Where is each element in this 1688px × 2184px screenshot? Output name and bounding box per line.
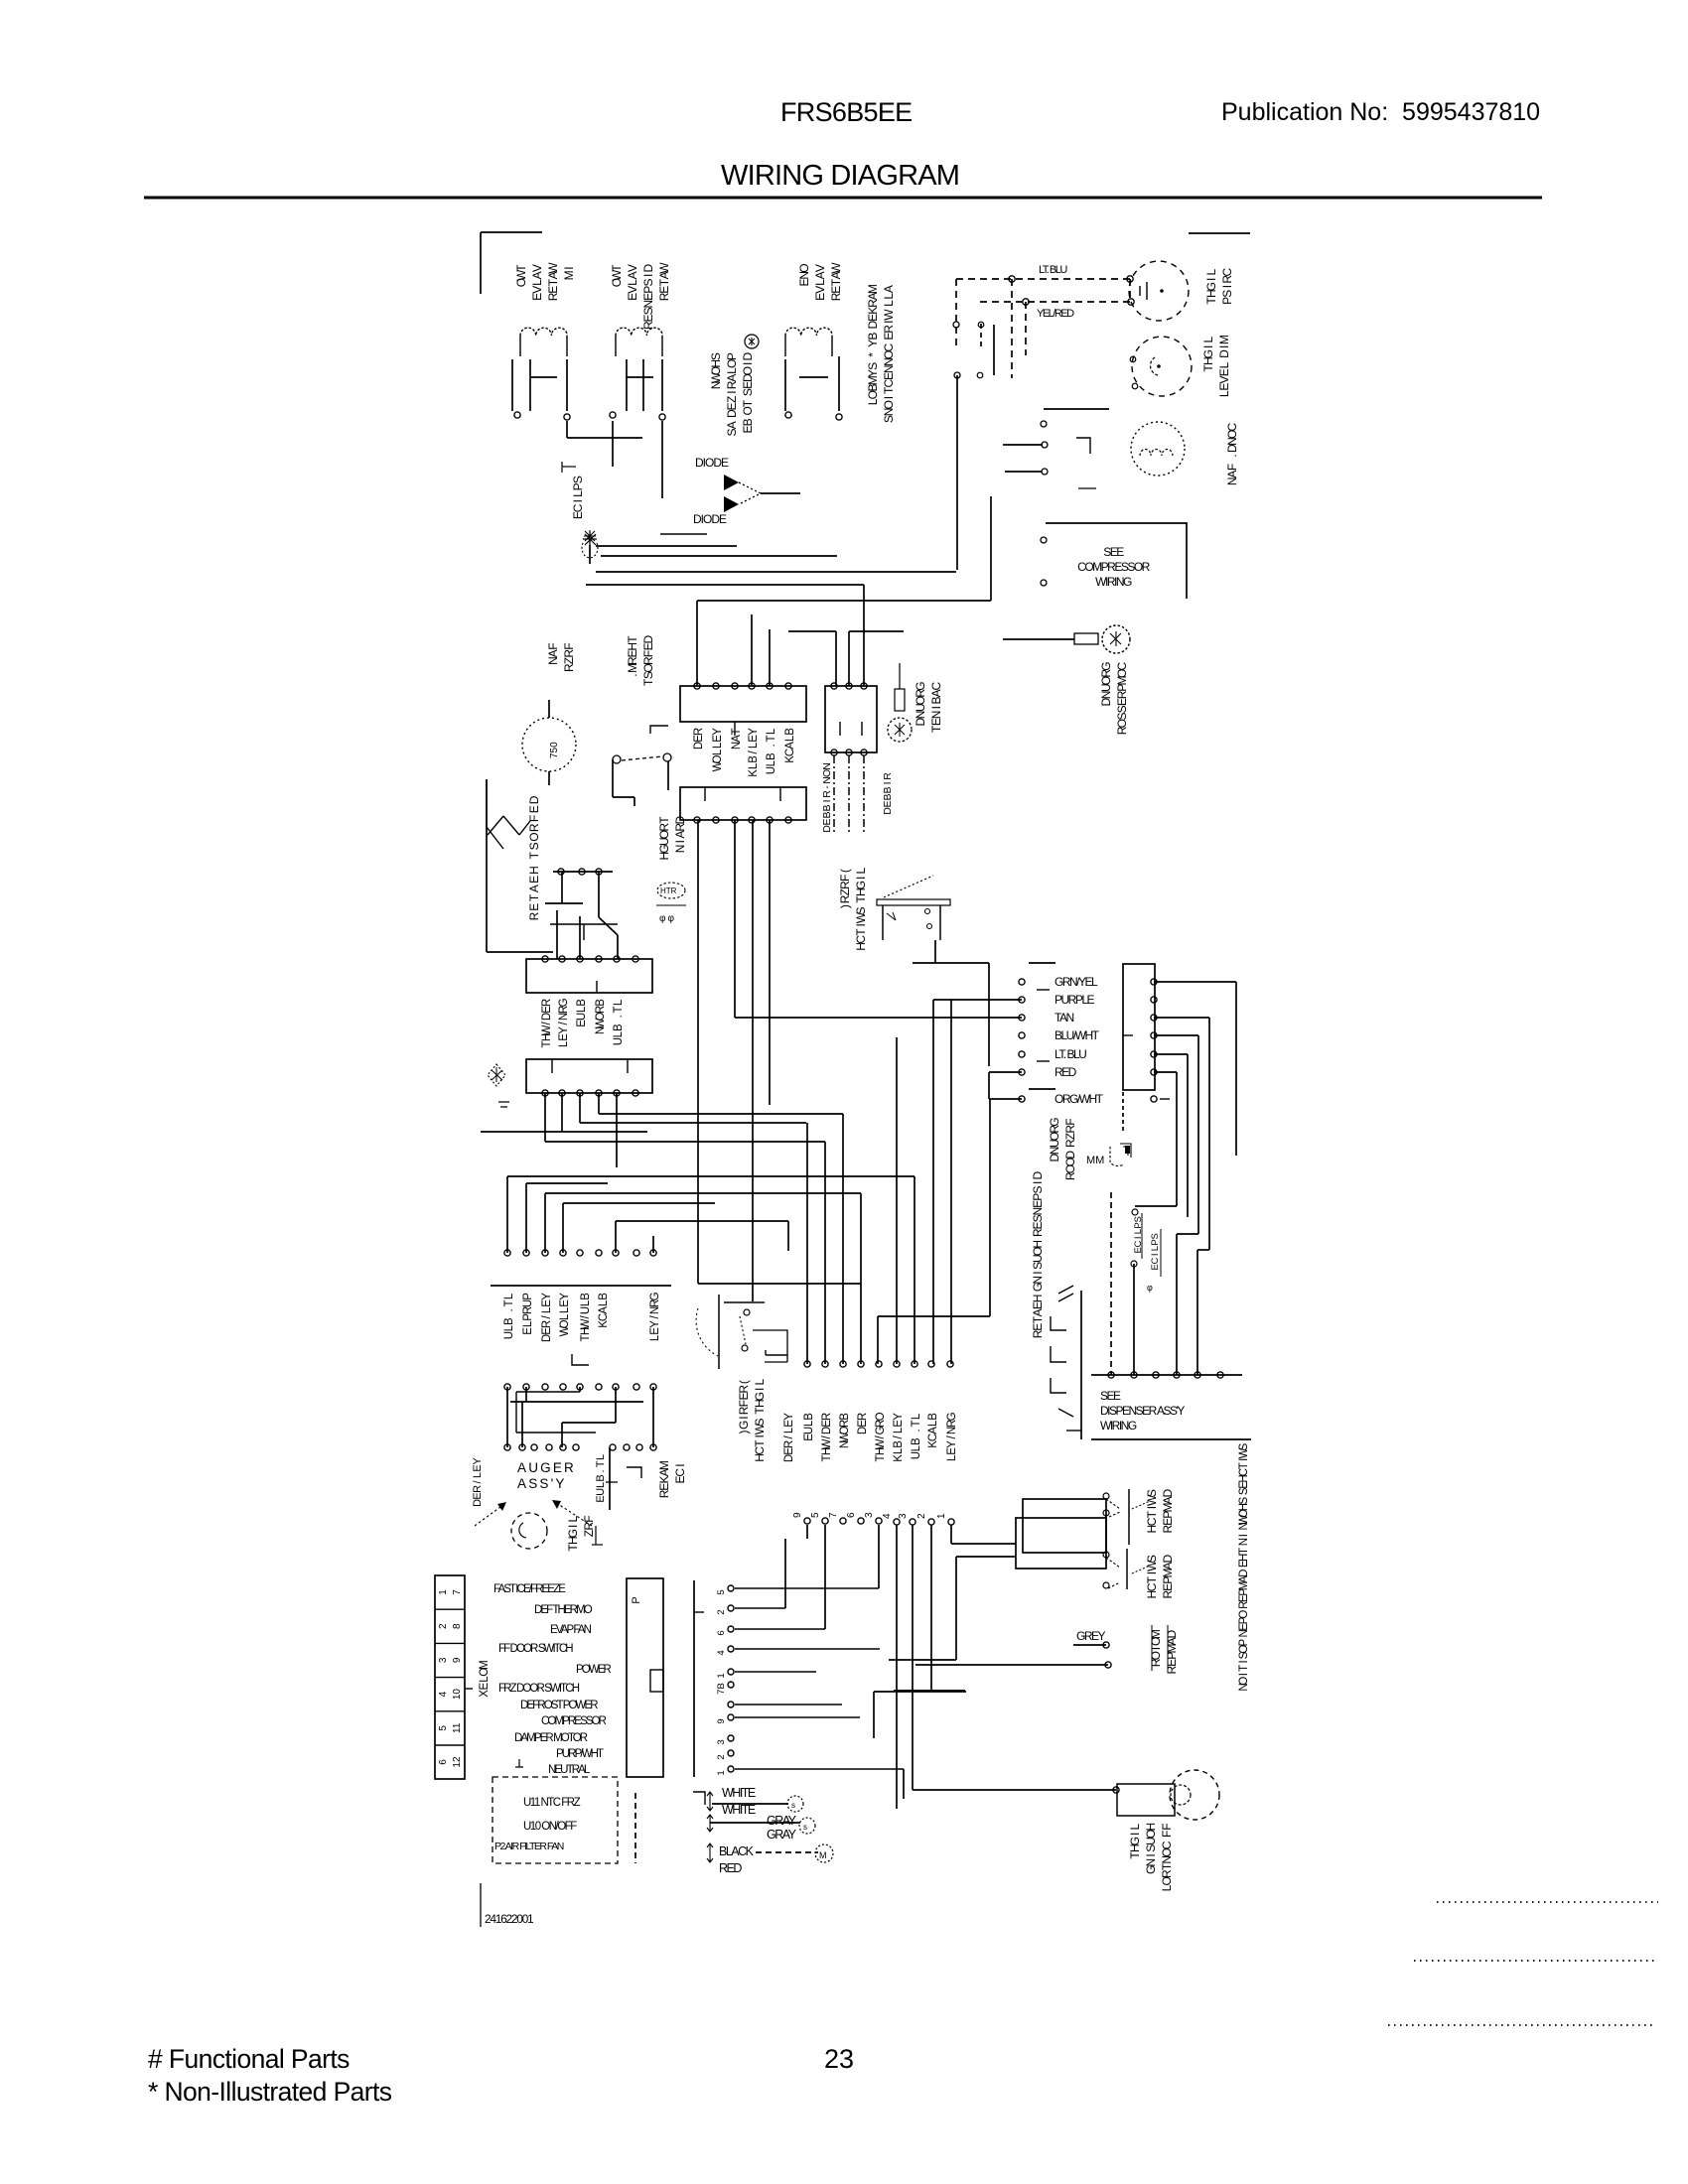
svg-text:E: E: [946, 1447, 958, 1455]
svg-text:R: R: [562, 663, 576, 672]
svg-text:S: S: [882, 415, 896, 423]
dashed wire: [1110, 1192, 1112, 1375]
svg-text:6: 6: [716, 1630, 727, 1635]
coil lead: [615, 336, 617, 356]
svg-text:B: B: [911, 1437, 922, 1445]
wire: [712, 1803, 788, 1805]
pin: [614, 1090, 620, 1096]
svg-text:F: F: [1225, 464, 1239, 471]
wire stub: [806, 1525, 808, 1539]
pin: [573, 1444, 579, 1450]
svg-text:R: R: [522, 1306, 534, 1314]
svg-text:E: E: [797, 279, 811, 287]
svg-text:R: R: [821, 790, 833, 798]
svg-text:I: I: [1238, 1458, 1250, 1461]
dashed wire YEL/RED: [980, 301, 1132, 303]
wire: [912, 1525, 914, 1790]
svg-text:D: D: [541, 1013, 553, 1021]
wire: [988, 963, 990, 1066]
svg-text:R: R: [527, 823, 541, 832]
svg-text:T: T: [1145, 1575, 1159, 1583]
svg-text:H: H: [1031, 1295, 1045, 1303]
svg-text:E: E: [1031, 1222, 1045, 1230]
tick: [694, 1611, 704, 1613]
svg-text:7: 7: [452, 1589, 463, 1595]
wire: [612, 759, 614, 797]
svg-text:W: W: [1145, 1560, 1159, 1571]
svg-text:Y: Y: [541, 1293, 553, 1300]
svg-text:S: S: [1150, 1233, 1161, 1239]
wire: [1154, 1053, 1188, 1055]
svg-text:6: 6: [846, 1512, 857, 1518]
svg-text:K: K: [893, 1454, 905, 1462]
pin: [1151, 979, 1157, 985]
svg-text:A: A: [866, 292, 880, 300]
wire: [993, 325, 995, 375]
pin: [633, 1384, 639, 1390]
svg-text:D: D: [693, 742, 705, 750]
svg-text:T: T: [503, 1299, 515, 1306]
svg-text:L: L: [595, 1482, 607, 1488]
svg-text:SEE: SEE: [1100, 1389, 1121, 1403]
wire: [580, 1122, 806, 1124]
svg-text:R: R: [866, 299, 880, 308]
wire: [487, 951, 553, 953]
svg-text:N: N: [709, 381, 723, 390]
svg-text:T: T: [882, 386, 896, 394]
terminal: [953, 322, 959, 328]
svg-text:I: I: [1238, 1673, 1250, 1676]
svg-text:E: E: [472, 1492, 484, 1499]
svg-text:U: U: [595, 1488, 607, 1496]
pin: [1019, 1096, 1025, 1102]
splice tick: [562, 466, 576, 468]
svg-text:S: S: [1238, 1487, 1250, 1495]
wire: [1154, 981, 1236, 983]
svg-text:E: E: [657, 1483, 671, 1491]
svg-text:I: I: [753, 1434, 767, 1437]
svg-text:T: T: [875, 1454, 887, 1461]
contact bar: [1128, 1489, 1130, 1545]
wire: [1176, 1234, 1178, 1375]
svg-text:BLU/WHT: BLU/WHT: [1055, 1028, 1100, 1042]
pin: [560, 1250, 566, 1256]
tick: [1029, 1088, 1055, 1090]
svg-text:E: E: [1238, 1560, 1250, 1568]
svg-text:E: E: [472, 1464, 484, 1471]
svg-text:U10 ON/OFF: U10 ON/OFF: [523, 1821, 577, 1833]
svg-text:R: R: [882, 772, 894, 780]
svg-text:E: E: [929, 718, 943, 726]
wire: [930, 1525, 932, 1691]
svg-text:B: B: [784, 728, 796, 736]
pin: [624, 1444, 630, 1450]
svg-text:L: L: [503, 1324, 515, 1331]
svg-text:I: I: [1031, 1181, 1045, 1184]
svg-text:P: P: [631, 1596, 642, 1603]
svg-text:12: 12: [452, 1756, 463, 1768]
dashed wire: [756, 1851, 818, 1853]
svg-text:H: H: [566, 1536, 580, 1545]
svg-text:N: N: [1031, 1207, 1045, 1216]
svg-text:E: E: [783, 1447, 795, 1455]
wire: [848, 631, 850, 686]
ff control housing: [1117, 1784, 1175, 1816]
svg-text:N: N: [558, 1013, 570, 1021]
svg-text:E: E: [712, 735, 724, 743]
wire long left: [735, 1017, 1022, 1019]
svg-text:3: 3: [716, 1739, 727, 1744]
junction: [1023, 299, 1029, 305]
frzr fan motor: [522, 718, 576, 771]
corner: [693, 1792, 705, 1805]
svg-text:GRN/YEL: GRN/YEL: [1055, 975, 1098, 989]
svg-text:R: R: [673, 823, 687, 832]
svg-text:T: T: [829, 278, 843, 286]
wire: [903, 1769, 905, 1799]
svg-text:L: L: [783, 1427, 795, 1433]
wire: [661, 359, 663, 411]
mid level light bulb: [1132, 337, 1192, 396]
svg-text:N: N: [1225, 478, 1239, 486]
svg-text:T: T: [753, 1407, 767, 1415]
svg-text:L: L: [854, 867, 868, 874]
svg-text:Y: Y: [946, 1440, 958, 1448]
svg-text:A: A: [725, 374, 739, 382]
dashed wire: [1025, 302, 1027, 355]
svg-text:N: N: [641, 300, 655, 309]
svg-text:1: 1: [936, 1513, 947, 1519]
svg-text:E: E: [1031, 1301, 1045, 1309]
wire trunk: [950, 1000, 952, 1364]
svg-text:LT. BLU: LT. BLU: [1055, 1047, 1086, 1061]
tick: [595, 1526, 597, 1545]
svg-text:R: R: [693, 728, 705, 736]
svg-text:F: F: [1160, 1831, 1174, 1838]
dotted line 1: [1437, 1901, 1658, 1903]
svg-text:K: K: [866, 307, 880, 315]
svg-text:DISPENSER ASS'Y: DISPENSER ASS'Y: [1100, 1404, 1185, 1418]
svg-text:E: E: [571, 511, 585, 519]
svg-text:T: T: [657, 816, 671, 824]
svg-text:L: L: [1128, 1823, 1142, 1830]
wire riser: [842, 1114, 844, 1364]
svg-text:/: /: [472, 1479, 484, 1483]
wire: [596, 545, 737, 547]
terminal: [1041, 580, 1047, 586]
pin: [596, 956, 602, 962]
wire long: [913, 1789, 1116, 1791]
wire: [913, 962, 989, 964]
svg-text:D: D: [1161, 1554, 1175, 1563]
pin: [713, 817, 719, 823]
switch leg: [882, 905, 884, 940]
pin: [546, 1444, 552, 1450]
svg-text:B: B: [613, 1024, 625, 1031]
svg-text:4: 4: [716, 1650, 727, 1655]
wire riser: [806, 1123, 808, 1364]
svg-text:I: I: [753, 1388, 767, 1391]
dotted actuator: [884, 876, 933, 897]
svg-text:M: M: [626, 663, 639, 673]
svg-text:B: B: [866, 333, 880, 341]
wire: [877, 1316, 879, 1364]
svg-text:L: L: [893, 1447, 905, 1454]
svg-text:1: 1: [438, 1589, 449, 1595]
pin: [636, 1444, 642, 1450]
svg-text:(: (: [737, 1380, 751, 1384]
svg-text:L: L: [946, 1454, 958, 1461]
svg-text:R: R: [1063, 1125, 1077, 1134]
table divider: [435, 1642, 465, 1644]
svg-text:A: A: [1031, 1308, 1045, 1316]
svg-text:L: L: [748, 742, 760, 749]
svg-text:R: R: [1149, 1658, 1163, 1667]
dashed stub: [1122, 1092, 1124, 1132]
contact: [1103, 1582, 1109, 1588]
wire: [878, 1315, 990, 1317]
wire: [989, 1098, 1022, 1100]
svg-text:EVAP FAN: EVAP FAN: [550, 1624, 592, 1636]
svg-text:L: L: [571, 490, 585, 497]
svg-text:C: C: [598, 1313, 610, 1321]
svg-text:I: I: [566, 1525, 580, 1528]
svg-text:K: K: [657, 1476, 671, 1484]
svg-text:E: E: [1161, 1518, 1175, 1526]
svg-text:φ φ: φ φ: [659, 913, 674, 924]
svg-text:L: L: [882, 300, 896, 307]
dashed wire: [1129, 279, 1131, 302]
svg-text:P: P: [1161, 1511, 1175, 1519]
pin: [749, 683, 755, 689]
pin: [504, 1444, 510, 1450]
wire: [1197, 1035, 1199, 1234]
coil lead: [784, 336, 786, 356]
wire: [1154, 1017, 1209, 1019]
svg-text:C: C: [927, 1433, 939, 1441]
svg-text:S: S: [1031, 1214, 1045, 1222]
svg-text:F: F: [546, 642, 560, 649]
tick: [592, 1544, 603, 1546]
wire trunk: [596, 571, 956, 573]
svg-text:H: H: [854, 887, 868, 896]
junction: [1009, 276, 1015, 282]
terminal: [954, 372, 960, 378]
wire: [735, 1648, 880, 1650]
pin: [559, 1090, 565, 1096]
wire: [579, 916, 581, 959]
wire: [544, 1193, 546, 1253]
wire: [589, 545, 591, 564]
connector bar: [491, 1285, 671, 1287]
svg-text:H: H: [821, 1447, 833, 1455]
svg-text:R: R: [783, 1440, 795, 1448]
wire: [613, 796, 634, 798]
svg-text:H: H: [527, 866, 541, 875]
connector key notch: [650, 1670, 663, 1692]
svg-text:11: 11: [452, 1722, 463, 1733]
pin: [596, 1384, 602, 1390]
crisp light bulb: [1129, 261, 1189, 321]
svg-text:W: W: [1145, 1494, 1159, 1506]
svg-text:T: T: [527, 851, 541, 859]
pin: [542, 956, 548, 962]
svg-text:S: S: [1144, 1844, 1158, 1852]
svg-text:E: E: [641, 293, 655, 301]
svg-text:S: S: [866, 362, 880, 370]
svg-text:N: N: [649, 1306, 661, 1314]
svg-text:F: F: [1063, 1118, 1077, 1125]
power cord wire: [833, 755, 835, 832]
svg-text:P: P: [1220, 297, 1234, 305]
svg-text:E: E: [1031, 1323, 1045, 1331]
numbered stubs 1-4: [948, 1519, 954, 1525]
svg-text:/: /: [893, 1435, 905, 1439]
svg-text:POWER: POWER: [576, 1664, 612, 1676]
terminal: [978, 322, 984, 328]
svg-text:A: A: [1225, 471, 1239, 478]
svg-text:N: N: [1160, 1855, 1174, 1864]
wire: [894, 1690, 965, 1692]
svg-text:T: T: [1031, 1315, 1045, 1323]
dotted diode common node: [739, 482, 761, 504]
svg-text:AUGER: AUGER: [517, 1460, 576, 1475]
svg-text:L: L: [626, 279, 639, 286]
svg-text:4: 4: [438, 1691, 449, 1697]
wire: [1133, 1264, 1135, 1375]
svg-text:I: I: [821, 799, 833, 802]
svg-text:9: 9: [452, 1657, 463, 1663]
wire trunk: [932, 1000, 934, 1364]
svg-text:W: W: [1238, 1447, 1250, 1458]
svg-text:C: C: [929, 681, 943, 690]
svg-text:I: I: [1220, 285, 1234, 288]
wire: [579, 1093, 581, 1123]
valve contact: [784, 359, 786, 411]
wire: [579, 1387, 581, 1392]
svg-text:T: T: [541, 1040, 553, 1047]
svg-text:A: A: [546, 649, 560, 657]
splice star junction: [583, 532, 597, 546]
svg-text:4: 4: [882, 1513, 893, 1519]
contact bar: [627, 376, 653, 378]
svg-text:E: E: [1115, 698, 1129, 706]
svg-text:I: I: [1031, 1271, 1045, 1274]
dotted line 2: [1414, 1960, 1657, 1962]
ring terminal compressor ground: [1074, 633, 1098, 644]
svg-text:A: A: [546, 271, 560, 279]
svg-text:H: H: [541, 1033, 553, 1041]
svg-text:L: L: [613, 1030, 625, 1037]
svg-text:L: L: [649, 1334, 661, 1341]
splice star symbol: [584, 530, 596, 542]
svg-text:T: T: [821, 1454, 833, 1461]
connector block left upper: [526, 959, 652, 993]
svg-text:E: E: [541, 1006, 553, 1014]
pin: [767, 683, 773, 689]
svg-text:N: N: [1238, 1629, 1250, 1637]
wire: [1208, 1018, 1210, 1250]
svg-text:TAN: TAN: [1055, 1011, 1073, 1024]
svg-text:L: L: [1217, 361, 1231, 368]
svg-text:5: 5: [716, 1589, 727, 1594]
wire: [899, 663, 901, 689]
tick: [734, 722, 736, 736]
svg-text:.: .: [503, 1308, 515, 1311]
svg-text:E: E: [748, 735, 760, 743]
svg-text:D: D: [741, 351, 755, 360]
light switch frzr body: [877, 899, 950, 905]
wire: [661, 421, 663, 498]
dashed option box: [492, 1777, 618, 1863]
svg-text:N: N: [839, 1440, 851, 1448]
bulb inner: [1171, 1785, 1191, 1805]
svg-text:B: B: [576, 999, 588, 1007]
connector block 3-pin: [825, 686, 877, 752]
svg-text:/: /: [541, 1022, 553, 1025]
wire: [521, 1402, 523, 1447]
svg-text:750: 750: [549, 742, 560, 758]
svg-text:D: D: [866, 320, 880, 329]
svg-text:T: T: [741, 399, 755, 407]
svg-text:RED: RED: [1055, 1065, 1077, 1079]
svg-text:COMPRESSOR: COMPRESSOR: [541, 1715, 607, 1727]
svg-text:9: 9: [716, 1718, 727, 1723]
svg-text:H: H: [1128, 1843, 1142, 1852]
pin: [531, 1444, 537, 1450]
svg-text:B: B: [839, 1413, 851, 1421]
svg-text:L: L: [559, 1313, 571, 1320]
splice terminal: [1131, 1261, 1137, 1267]
wire: [934, 940, 936, 963]
svg-text:A: A: [598, 1306, 610, 1314]
terminal: [1041, 537, 1047, 543]
svg-text:D: D: [641, 263, 655, 272]
svg-text:R: R: [857, 1413, 869, 1421]
svg-text:L: L: [1150, 1246, 1161, 1251]
svg-text:I: I: [741, 362, 755, 365]
svg-text:K: K: [927, 1440, 939, 1448]
table divider: [435, 1710, 465, 1712]
svg-text:E: E: [821, 1420, 833, 1428]
svg-text:T: T: [1238, 1665, 1250, 1672]
terminal: [785, 412, 791, 418]
svg-text:E: E: [546, 286, 560, 294]
filament: [519, 1523, 526, 1538]
wire: [933, 999, 1022, 1001]
svg-text:L: L: [580, 1299, 592, 1306]
svg-text:A: A: [673, 831, 687, 839]
pin: [542, 1090, 548, 1096]
wire: [735, 1768, 904, 1770]
svg-text:H: H: [753, 1453, 767, 1462]
svg-text:P: P: [522, 1313, 534, 1321]
svg-text:H: H: [626, 642, 639, 651]
svg-text:Y: Y: [712, 728, 724, 736]
svg-text:A: A: [527, 885, 541, 892]
svg-text:DIODE: DIODE: [695, 456, 729, 470]
wire trunk: [526, 1182, 608, 1184]
dashed stub: [980, 324, 982, 348]
svg-text:H: H: [580, 1327, 592, 1335]
pin: [523, 1384, 529, 1390]
svg-text:D: D: [914, 717, 927, 726]
svg-text:E: E: [1217, 368, 1231, 376]
svg-text:WIRING: WIRING: [1100, 1419, 1137, 1433]
junction: [1128, 299, 1134, 305]
svg-text:R: R: [829, 292, 843, 301]
svg-text:L: L: [1201, 336, 1215, 342]
